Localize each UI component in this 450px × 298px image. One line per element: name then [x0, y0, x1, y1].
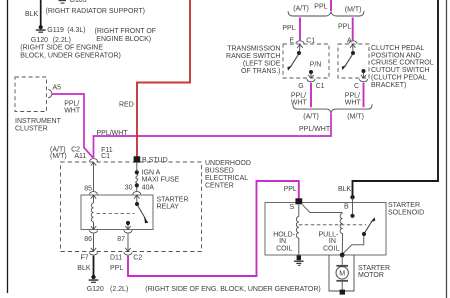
pin D11/C2 — [110, 248, 142, 272]
svg-text:PPL: PPL — [314, 3, 327, 10]
svg-text:(2.2L): (2.2L) — [110, 286, 128, 293]
svg-text:G120: G120 — [87, 286, 104, 293]
svg-text:RELAY: RELAY — [157, 204, 180, 211]
pin 85 — [84, 185, 97, 203]
relay mechanical link — [97, 213, 135, 215]
pin 30 — [133, 192, 141, 202]
ground G103 (cut off at top) — [46, 0, 145, 15]
svg-text:PPL: PPL — [282, 25, 295, 32]
svg-text:CLUSTER: CLUSTER — [15, 125, 48, 132]
pull-in coil — [319, 214, 343, 254]
pin G/C1 — [298, 75, 324, 90]
svg-text:C1: C1 — [316, 83, 325, 90]
svg-text:PPL/: PPL/ — [64, 100, 79, 107]
svg-text:B: B — [344, 203, 349, 210]
svg-text:D11: D11 — [110, 254, 122, 261]
svg-text:87: 87 — [117, 236, 125, 243]
brace merge A/T M/T — [293, 104, 372, 120]
svg-text:PPL: PPL — [284, 186, 297, 193]
svg-text:B STUD: B STUD — [142, 157, 168, 164]
svg-text:A5: A5 — [53, 84, 62, 91]
svg-text:(RIGHT RADIATOR SUPPORT): (RIGHT RADIATOR SUPPORT) — [46, 8, 145, 15]
starter motor housing — [329, 255, 354, 291]
contact C — [362, 69, 366, 78]
svg-text:(M/T): (M/T) — [50, 153, 67, 160]
svg-text:40A: 40A — [142, 184, 155, 191]
junction node motor feed — [340, 253, 345, 258]
svg-text:COIL: COIL — [276, 245, 292, 252]
svg-text:30: 30 — [125, 185, 133, 192]
svg-text:MOTOR: MOTOR — [358, 272, 384, 279]
pin E/C1 — [290, 37, 316, 51]
svg-text:CENTER: CENTER — [205, 182, 234, 189]
svg-text:RED: RED — [119, 101, 134, 108]
svg-text:CRUISE CONTROL: CRUISE CONTROL — [371, 60, 434, 67]
transmission range switch box — [226, 44, 329, 78]
wire RED to B STUD — [119, 0, 190, 157]
svg-text:BLK: BLK — [77, 265, 91, 272]
wire PPL/WHT from G — [291, 83, 311, 108]
svg-text:STARTER: STARTER — [388, 202, 420, 209]
svg-text:(RIGHT SIDE OF ENG. BLOCK, UND: (RIGHT SIDE OF ENG. BLOCK, UNDER GENERAT… — [145, 286, 320, 293]
node S terminal — [290, 198, 303, 211]
svg-text:(A/T): (A/T) — [293, 6, 309, 13]
svg-text:C1: C1 — [306, 37, 315, 44]
node B STUD — [134, 156, 168, 164]
svg-text:POSITION AND: POSITION AND — [371, 52, 421, 59]
svg-text:WHT: WHT — [64, 107, 81, 114]
svg-text:SOLENOID: SOLENOID — [388, 209, 424, 216]
svg-text:(LEFT SIDE: (LEFT SIDE — [243, 60, 281, 67]
svg-text:PPL: PPL — [110, 265, 123, 272]
solenoid switch blade — [343, 217, 375, 253]
pin 87 — [117, 225, 132, 251]
svg-text:(M/T): (M/T) — [345, 7, 362, 14]
wire BLK to G119 — [25, 0, 41, 27]
svg-text:WHT: WHT — [345, 100, 362, 107]
svg-text:S: S — [290, 204, 295, 211]
svg-text:CLUTCH PEDAL: CLUTCH PEDAL — [371, 45, 424, 52]
pin 86 — [84, 224, 97, 251]
svg-text:G103: G103 — [70, 0, 87, 4]
wire S to pull-in coil — [302, 205, 342, 213]
svg-text:C2: C2 — [133, 254, 142, 261]
svg-text:ENGINE BLOCK): ENGINE BLOCK) — [96, 36, 151, 43]
svg-text:(2.2L): (2.2L) — [53, 37, 71, 44]
relay switch contact — [126, 202, 148, 225]
svg-text:IN: IN — [329, 238, 336, 245]
ground G119 — [36, 25, 156, 43]
instrument cluster — [15, 77, 62, 132]
wire PPL D11 to solenoid S — [128, 181, 299, 276]
relay coil — [91, 203, 93, 229]
pin A5 — [48, 84, 61, 97]
wire PPL at top — [293, 0, 361, 14]
svg-text:IGN A: IGN A — [142, 169, 161, 176]
svg-text:(A/T): (A/T) — [303, 114, 319, 121]
clutch switch blade — [342, 51, 355, 70]
svg-text:G120: G120 — [31, 37, 48, 44]
svg-text:C: C — [354, 83, 359, 90]
ground G120 — [87, 275, 321, 293]
svg-text:OF TRANS.): OF TRANS.) — [241, 68, 281, 75]
svg-text:BLOCK, UNDER GENERATOR): BLOCK, UNDER GENERATOR) — [20, 52, 120, 59]
starter motor M — [336, 255, 390, 295]
svg-text:P/N: P/N — [310, 62, 322, 69]
underhood bussed electrical center box — [61, 160, 251, 251]
wire BLK F7 to G120 — [93, 256, 95, 276]
svg-text:TRANSMISSION: TRANSMISSION — [227, 46, 280, 53]
solenoid mechanical link — [299, 224, 366, 226]
svg-text:IN: IN — [279, 238, 286, 245]
wire BLK to solenoid B — [338, 0, 438, 199]
svg-text:UNDERHOOD: UNDERHOOD — [205, 160, 251, 167]
svg-text:CUTOUT SWITCH: CUTOUT SWITCH — [371, 67, 429, 74]
svg-text:F7: F7 — [81, 254, 89, 261]
svg-text:(RIGHT SIDE OF ENGINE: (RIGHT SIDE OF ENGINE — [20, 45, 103, 52]
svg-text:PPL: PPL — [338, 24, 351, 31]
svg-text:BLK: BLK — [338, 186, 352, 193]
brace split A/T M/T — [288, 11, 364, 16]
svg-text:(RIGHT FRONT OF: (RIGHT FRONT OF — [95, 28, 157, 35]
wire PPL/WHT from A5 to F11 — [52, 94, 93, 158]
svg-text:86: 86 — [84, 236, 92, 243]
svg-text:ELECTRICAL: ELECTRICAL — [205, 175, 248, 182]
wire PPL/WHT from brace to F11 — [94, 114, 332, 158]
fuse IGN A MAXI FUSE 40A — [125, 163, 180, 192]
wire PPL M/T branch — [338, 18, 353, 41]
svg-text:STARTER: STARTER — [358, 265, 390, 272]
svg-text:G: G — [298, 83, 303, 90]
svg-text:PPL/WHT: PPL/WHT — [97, 130, 129, 137]
wire PPL/WHT from C — [345, 83, 364, 108]
svg-text:BUSSED: BUSSED — [205, 168, 234, 175]
svg-text:A11: A11 — [74, 153, 86, 160]
starter solenoid box — [265, 202, 424, 255]
svg-text:85: 85 — [84, 185, 92, 192]
svg-text:M: M — [339, 270, 345, 277]
svg-text:(4.3L): (4.3L) — [67, 27, 85, 34]
relay box: starter relay — [81, 195, 189, 230]
ground in solenoid — [294, 255, 304, 265]
svg-text:COIL: COIL — [323, 245, 339, 252]
TRS switch blade — [287, 51, 301, 71]
svg-text:PPL/WHT: PPL/WHT — [299, 126, 331, 133]
wire PPL A/T branch — [282, 18, 300, 41]
hold-in coil — [273, 204, 299, 255]
pin A — [347, 37, 357, 51]
svg-text:BLK: BLK — [25, 11, 39, 18]
svg-text:C1: C1 — [101, 153, 110, 160]
svg-text:E: E — [290, 37, 295, 44]
contact P/N — [309, 62, 321, 78]
node B terminal — [344, 195, 355, 218]
pin F7 — [77, 248, 97, 272]
svg-text:STARTER: STARTER — [157, 196, 189, 203]
svg-text:(CLUTCH PEDAL: (CLUTCH PEDAL — [371, 74, 427, 81]
ground G120 (2.2L) label — [20, 37, 120, 59]
svg-text:INSTRUMENT: INSTRUMENT — [15, 118, 62, 125]
svg-text:BRACKET): BRACKET) — [371, 82, 406, 89]
svg-text:RANGE SWITCH: RANGE SWITCH — [226, 53, 280, 60]
svg-text:MAXI FUSE: MAXI FUSE — [142, 177, 180, 184]
pin C — [354, 75, 368, 90]
clutch pedal switch box — [338, 44, 434, 89]
svg-text:(M/T): (M/T) — [347, 114, 364, 121]
pin F11/C1 into UBEC — [50, 146, 113, 191]
svg-text:G119: G119 — [47, 27, 64, 34]
